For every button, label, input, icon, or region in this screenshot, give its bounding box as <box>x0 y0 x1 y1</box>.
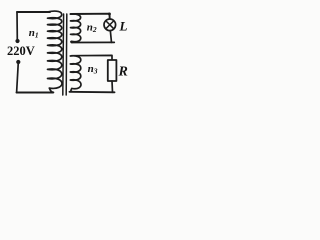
wire left vertical upper <box>16 12 18 39</box>
wire lamp bottom stub <box>110 30 111 42</box>
transformer core right line <box>65 14 68 95</box>
source terminal dot upper <box>15 39 19 43</box>
wire left vertical lower <box>17 64 19 93</box>
wire n2 top horizontal to lamp <box>71 14 110 20</box>
wire n2 bottom horizontal <box>72 41 115 43</box>
svg-text:220V: 220V <box>7 44 35 58</box>
svg-text:R: R <box>118 64 128 79</box>
resistor R <box>108 60 117 81</box>
svg-text:L: L <box>119 19 128 34</box>
wire bottom-left horizontal <box>17 91 53 93</box>
lamp L <box>104 19 116 31</box>
transformer core left line <box>62 14 65 95</box>
wire resistor bottom leg <box>111 81 114 92</box>
wire top-left horizontal <box>17 11 50 13</box>
transformer primary winding n1 <box>48 11 62 92</box>
junction blob top corner <box>108 13 111 16</box>
source terminal dot lower <box>16 60 20 64</box>
wire bottom horizontal n3 loop <box>70 91 115 94</box>
secondary winding n3 <box>70 56 81 92</box>
wire n3 top horizontal to resistor <box>72 55 113 60</box>
secondary winding n2 <box>71 14 81 42</box>
